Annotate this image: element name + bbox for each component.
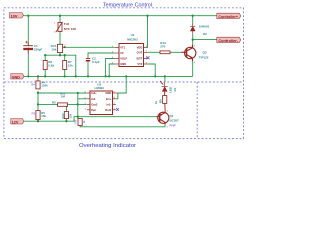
svg-text:15k: 15k [41,114,46,118]
potentiometer RV1 [57,44,65,52]
svg-text:Controller+: Controller+ [218,15,238,19]
wire VSLP [106,59,115,77]
wire Q1 collector return [80,124,165,127]
svg-text:R9: R9 [158,99,162,103]
node gnd VT2 [154,75,156,77]
svg-text:1M: 1M [61,94,66,98]
resistor RA R12 [64,112,68,119]
svg-text:VT1: VT1 [120,46,125,50]
wire U1 VT2 [148,64,156,76]
wire C2 top to CF [88,53,115,58]
junction dots [27,15,194,123]
node top bus TH1 [59,15,61,17]
wire C1 vertical [27,16,29,77]
wire top 12V bus [24,15,218,17]
svg-text:Q1: Q1 [170,114,174,118]
wire TH1 vertical [59,16,61,45]
wire RA bottom [65,119,67,122]
resistor RB [78,119,82,126]
resistor R7 [63,61,67,70]
svg-text:D1: D1 [173,87,177,91]
wire x78 vertical [77,93,79,119]
svg-text:MIC502: MIC502 [127,37,138,41]
node base RB [77,116,79,118]
svg-text:TH1: TH1 [64,22,70,26]
svg-text:R9: R9 [73,119,77,123]
svg-text:5.6k: 5.6k [48,64,54,68]
svg-text:B+: B+ [32,83,36,87]
node 12V R5 [37,120,39,122]
wire R13 to Q3 base [170,51,181,53]
svg-text:D2: D2 [203,32,207,36]
node R2 RA [65,103,67,105]
wire 12V run to Q1 base [24,117,156,122]
node divider R6 [44,54,46,56]
wire R8 to Q1 emitter [164,103,166,112]
node gnd R4 [37,75,39,77]
svg-text:12V: 12V [12,120,19,124]
svg-text:GND: GND [12,75,21,79]
svg-text:GND: GND [105,91,111,95]
svg-text:In1-: In1- [107,102,112,106]
svg-text:VT2: VT2 [137,62,142,66]
frame: temperature control dashed box [4,8,244,139]
wire LED top [164,76,166,82]
node gnd U3 [125,75,127,77]
wire C2 bottom [87,61,89,77]
svg-text:Controller-: Controller- [218,39,238,43]
wire U1 OUT to R13 [148,51,160,53]
svg-text:220µF: 220µF [34,47,43,51]
diode D2 1N4001 [190,24,195,34]
svg-text:Out2: Out2 [91,102,98,106]
svg-text:VDD: VDD [137,46,143,50]
svg-text:0.1µF: 0.1µF [92,60,100,64]
wire RV1 bottom [59,53,61,56]
net label 10V [10,13,24,19]
node top bus VDD [146,15,148,17]
svg-text:NTC 10K: NTC 10K [64,27,77,31]
svg-text:LM393: LM393 [95,86,105,90]
node controller- D2 [192,38,194,40]
resistor R5 [36,111,40,120]
thermistor TH1 [56,22,63,32]
svg-text:CF: CF [120,51,124,55]
svg-text:TIP122: TIP122 [199,55,209,59]
wire R2 row [38,103,58,105]
svg-text:10V: 10V [11,14,18,18]
svg-text:R3: R3 [32,112,36,116]
capacitor C2 [87,59,90,61]
svg-text:270: 270 [160,44,165,48]
node gnd R6 [44,75,46,77]
wire R6 top [44,55,46,60]
node R2 right [77,103,79,105]
wire R6 bottom [44,70,46,77]
svg-text:BC557: BC557 [170,119,180,123]
node R2 left [37,103,39,105]
resistor R8 led series [163,96,167,104]
op-amp U1 MIC502 [112,33,148,67]
op-amp U3 LM393 [85,83,118,115]
resistor R6 [43,61,47,70]
no-connect X on /OTF [147,56,150,59]
svg-text:In1+: In1+ [106,97,112,101]
svg-text:Temperature Control: Temperature Control [103,3,152,9]
wire U3 GND up [118,76,126,93]
svg-text:LED: LED [168,87,172,93]
node gnd chain [75,75,77,77]
node top bus D2 [192,15,194,17]
svg-text:OUT: OUT [137,50,143,54]
svg-text:/OTF: /OTF [136,57,142,61]
no-connect X on U3 out [116,108,119,111]
svg-text:150k: 150k [42,84,49,88]
wire GND bus [24,75,193,77]
node gnd R7 [64,75,66,77]
node divider R7 [64,54,66,56]
resistor R13 [160,51,170,54]
svg-text:In2+: In2+ [91,91,97,95]
svg-text:VSLP: VSLP [120,57,127,61]
node comparator R4 [37,92,39,94]
resistor R4 [36,81,40,89]
wire divider row [45,55,76,76]
node divider RV1 [59,54,61,56]
node gnd C2 [87,75,89,77]
net label GND [11,74,24,80]
wire controller- [193,39,217,41]
wire R7 top [64,55,66,60]
net label Controller+ [217,13,241,19]
LED D1 [160,81,167,91]
node gnd VSLP [104,75,106,77]
wire LED to R8 [164,92,166,96]
svg-text:U1: U1 [131,33,135,37]
wire left chain vertical [37,91,39,111]
node top bus C1 [27,15,29,17]
node gnd C1 [27,75,29,77]
wire Q3 collector [192,40,194,48]
transistor Q3 TIP122 [181,45,196,61]
svg-text:Pwr: Pwr [91,108,96,112]
svg-text:10k: 10k [69,113,73,118]
node gnd U1 [108,75,110,77]
net label 12V [11,119,24,125]
wire R2 to In1- [68,103,87,105]
wire Q3 emitter [192,58,194,76]
svg-text:PNP: PNP [170,123,176,127]
node gnd LED [164,75,166,77]
svg-text:In2-: In2- [91,97,96,101]
svg-text:Overheating Indicator: Overheating Indicator [79,143,136,149]
svg-text:GND: GND [120,62,126,66]
node 12V RA [65,120,67,122]
wire D2 vertical [192,16,194,25]
capacitor C1 [27,46,30,48]
transistor Q1 BC557 [156,112,169,124]
svg-text:R2: R2 [52,101,56,105]
resistor R2 [58,103,68,106]
svg-text:10k: 10k [51,47,56,51]
net label Controller- [217,37,241,43]
svg-text:1N4001: 1N4001 [199,24,210,28]
svg-text:Q3: Q3 [203,50,207,54]
wire comparator input row [38,92,87,94]
wire U1 GND pin [109,64,115,76]
wire RV1 wiper to VT1 [63,46,115,48]
wire In2- branch [78,98,87,100]
svg-text:R12: R12 [61,113,65,119]
svg-text:15k: 15k [68,64,73,68]
wire R7 bottom [64,70,66,77]
wire RA top [65,104,67,111]
svg-text:Out1: Out1 [105,108,112,112]
wire U1 VDD drop [147,16,149,48]
node comparator x78 [77,92,79,94]
